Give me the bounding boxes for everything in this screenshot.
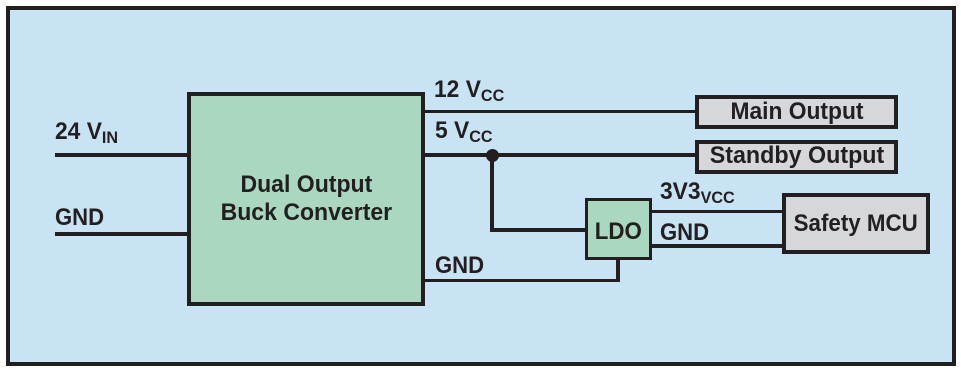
label 24 VIN — [55, 120, 121, 144]
block Standby Output — [695, 140, 898, 174]
wire 12 VCC — [425, 110, 695, 113]
wire GND converter output — [425, 279, 620, 282]
label 3V3 VCC — [660, 180, 739, 204]
block Main Output — [695, 95, 898, 129]
wire 24 VIN input — [55, 153, 189, 156]
wire 5 VCC branch vertical — [490, 155, 493, 232]
label GND LDO output — [660, 221, 713, 245]
wire 5 VCC — [425, 153, 695, 156]
label GND converter output — [435, 254, 488, 278]
block Dual Output Buck Converter — [187, 92, 425, 306]
wire GND stub to LDO — [616, 260, 619, 281]
wire GND LDO to MCU — [652, 244, 782, 247]
label 5 VCC — [435, 119, 496, 143]
label GND input — [55, 206, 108, 230]
wire 5 VCC branch to LDO — [490, 228, 585, 231]
block Safety MCU — [782, 193, 930, 254]
wire GND input — [55, 232, 189, 235]
label 12 VCC — [434, 78, 508, 102]
junction node on 5 VCC — [486, 149, 500, 163]
block LDO — [585, 198, 652, 260]
wire 3V3 VCC — [652, 210, 782, 213]
